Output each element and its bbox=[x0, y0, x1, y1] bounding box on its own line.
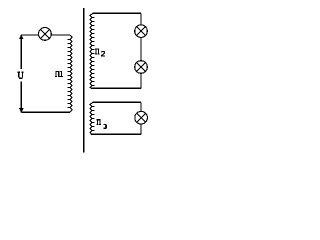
wire top of n2 loop bbox=[93, 12, 142, 14]
n1 value label bbox=[55, 71, 63, 76]
inductor n1 primary winding bbox=[68, 35, 73, 112]
wire left vertical lower segment bbox=[20, 82, 22, 113]
wire right of n3 loop bbox=[140, 102, 142, 134]
wire bottom left horizontal bbox=[21, 111, 70, 113]
n3 value label bbox=[96, 120, 106, 128]
transformer core bbox=[83, 8, 85, 153]
wire right of n2 loop bbox=[140, 13, 142, 88]
voltage arrowhead up bbox=[19, 35, 24, 40]
wire top left horizontal bbox=[21, 34, 70, 36]
wire left vertical upper segment bbox=[20, 35, 22, 69]
wire bottom of n2 loop bbox=[91, 87, 141, 89]
lamp P2 bbox=[135, 25, 148, 38]
voltage arrowhead down bbox=[19, 108, 24, 113]
lamp P1 bbox=[39, 28, 52, 41]
lamp P3 bbox=[135, 61, 148, 74]
inductor n3 secondary winding bbox=[90, 102, 94, 134]
inductor n2 secondary winding bbox=[90, 13, 94, 88]
wire bottom of n3 loop bbox=[91, 133, 141, 135]
n2 value label bbox=[95, 49, 105, 56]
lamp P4 bbox=[135, 111, 148, 124]
node U label bbox=[18, 72, 24, 78]
wire top of n3 loop bbox=[93, 101, 142, 103]
